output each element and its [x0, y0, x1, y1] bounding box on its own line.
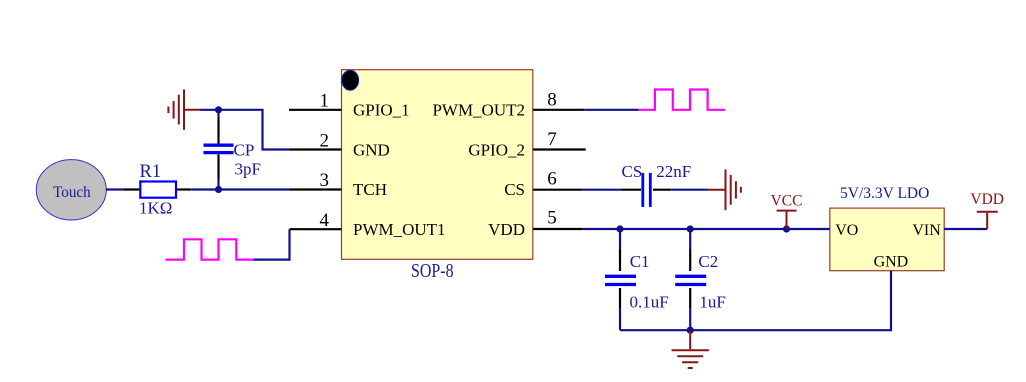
svg-text:0.1uF: 0.1uF: [630, 293, 669, 312]
svg-text:PWM_OUT2: PWM_OUT2: [432, 101, 525, 120]
svg-text:C2: C2: [698, 252, 718, 271]
svg-text:2: 2: [320, 130, 330, 151]
svg-text:7: 7: [547, 129, 557, 150]
svg-text:Touch: Touch: [53, 184, 91, 201]
svg-text:5: 5: [547, 208, 557, 229]
svg-text:3: 3: [320, 170, 330, 191]
svg-text:VIN: VIN: [912, 222, 941, 239]
svg-text:GPIO_2: GPIO_2: [468, 140, 525, 159]
svg-text:VDD: VDD: [970, 191, 1004, 208]
svg-text:8: 8: [547, 89, 557, 110]
svg-text:GPIO_1: GPIO_1: [353, 101, 410, 120]
svg-text:3pF: 3pF: [235, 159, 261, 178]
svg-text:22nF: 22nF: [656, 162, 691, 181]
svg-text:C1: C1: [630, 252, 650, 271]
svg-text:PWM_OUT1: PWM_OUT1: [353, 220, 446, 239]
svg-text:GND: GND: [353, 140, 390, 159]
svg-text:1: 1: [320, 91, 330, 112]
svg-text:TCH: TCH: [353, 180, 387, 199]
svg-text:CP: CP: [234, 140, 255, 159]
svg-text:VO: VO: [835, 222, 858, 239]
svg-text:6: 6: [547, 168, 557, 189]
svg-text:SOP-8: SOP-8: [411, 260, 454, 282]
svg-text:R1: R1: [140, 162, 162, 182]
svg-text:VDD: VDD: [488, 220, 525, 239]
svg-text:GND: GND: [874, 253, 909, 270]
svg-text:CS: CS: [622, 162, 643, 181]
svg-text:1KΩ: 1KΩ: [139, 198, 172, 217]
svg-text:CS: CS: [504, 180, 525, 199]
svg-text:VCC: VCC: [771, 192, 803, 209]
svg-text:1uF: 1uF: [699, 293, 725, 312]
svg-text:5V/3.3V LDO: 5V/3.3V LDO: [840, 185, 929, 202]
svg-text:4: 4: [320, 210, 330, 231]
